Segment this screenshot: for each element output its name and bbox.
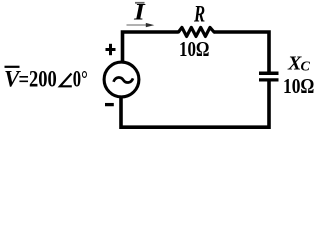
svg-text:I: I bbox=[133, 0, 146, 25]
current direction arrow bbox=[127, 23, 155, 27]
polarity plus bbox=[106, 44, 116, 55]
svg-text:10Ω: 10Ω bbox=[283, 74, 314, 98]
svg-text:C: C bbox=[301, 60, 311, 75]
wire bottom loop: capacitor down, bottom, up to source bbox=[121, 81, 269, 127]
resistor R bbox=[179, 27, 215, 36]
svg-text:=200: =200 bbox=[19, 67, 57, 92]
source value label V = 200 angle 0 deg bbox=[4, 67, 88, 92]
wire top-right: from resistor right then down to capacitor bbox=[214, 32, 269, 72]
svg-text:0°: 0° bbox=[73, 67, 88, 92]
capacitor XC plates bbox=[259, 73, 279, 80]
wire top-left: from source top up and right to resistor bbox=[123, 32, 179, 62]
svg-text:R: R bbox=[193, 1, 205, 27]
source V1 circle bbox=[104, 62, 139, 97]
polarity minus bbox=[105, 103, 114, 106]
svg-text:10Ω: 10Ω bbox=[179, 37, 210, 61]
label XC bbox=[287, 53, 311, 75]
source V1 sine tilde bbox=[114, 77, 134, 82]
current label I with overline bbox=[133, 0, 146, 25]
